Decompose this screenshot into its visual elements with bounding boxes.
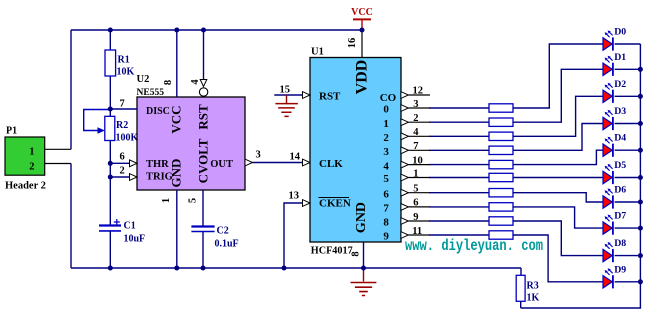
U1 pin 12 CO stub xyxy=(401,92,409,99)
wire resistor 9 to LED D9 anode xyxy=(513,235,603,282)
resistor row 1 (output 1) xyxy=(489,118,513,126)
junction bottom rail / CKEN xyxy=(282,266,287,271)
junction bottom rail / C2 xyxy=(201,266,206,271)
junction bottom rail / U2 pin1 xyxy=(174,266,179,271)
LED D2 xyxy=(603,79,626,103)
connector P1 Header 2 xyxy=(5,126,46,192)
wire U1 pin 3 to resistor row 0 xyxy=(408,107,430,109)
U1 pin 13 CKEN wire xyxy=(284,203,302,268)
wire U1 pin 7 to resistor row 3 xyxy=(408,149,430,151)
U2 pin 1 GND wire xyxy=(176,190,178,268)
svg-text:CLK: CLK xyxy=(319,158,343,170)
svg-text:8: 8 xyxy=(351,251,362,256)
svg-text:D1: D1 xyxy=(614,52,626,63)
junction right rail D5 xyxy=(638,175,643,180)
wire right cathode rail xyxy=(521,44,641,308)
svg-text:2: 2 xyxy=(120,166,125,177)
svg-text:6: 6 xyxy=(383,188,389,200)
svg-text:THR: THR xyxy=(146,159,169,170)
svg-text:14: 14 xyxy=(290,152,301,163)
junction THR node xyxy=(108,161,113,166)
svg-text:U1: U1 xyxy=(311,47,324,58)
svg-text:GND: GND xyxy=(354,202,369,233)
wire LED D9 cathode to right rail xyxy=(615,281,641,283)
resistor row 0 (output 0) xyxy=(489,104,513,112)
node U1 output 2 (pin 4) xyxy=(383,127,419,144)
wire U1 pin 6 to resistor row 7 xyxy=(408,206,430,208)
node U1 output 3 (pin 7) xyxy=(383,141,418,158)
capacitor C2 0.1uF xyxy=(191,227,214,232)
LED D0 xyxy=(603,27,626,51)
svg-text:D0: D0 xyxy=(614,27,626,38)
svg-text:2: 2 xyxy=(29,162,34,173)
resistor row 3 (output 3) xyxy=(489,146,513,154)
svg-text:D7: D7 xyxy=(614,211,626,222)
wire resistor 3 to LED D3 anode xyxy=(513,124,603,151)
junction top rail / U2 pin4 xyxy=(201,28,206,33)
svg-text:RST: RST xyxy=(319,91,341,103)
wire LED D1 cathode to right rail xyxy=(615,68,641,70)
junction right rail D7 xyxy=(638,226,643,231)
wire LED D3 cathode to right rail xyxy=(615,123,641,125)
junction top rail / U2 pin8 xyxy=(174,28,179,33)
junction right rail D4 xyxy=(638,148,643,153)
junction top rail / R1 xyxy=(108,28,113,33)
svg-text:2: 2 xyxy=(383,132,389,144)
resistor row 8 (output 8) xyxy=(489,217,513,225)
svg-text:1: 1 xyxy=(383,118,389,130)
resistor row 7 (output 7) xyxy=(489,203,513,211)
U1 CLK pin arrow xyxy=(303,159,311,166)
svg-text:1K: 1K xyxy=(527,293,540,304)
svg-text:10K: 10K xyxy=(117,67,135,78)
op-amp/timer U2 NE555 body xyxy=(137,97,245,190)
U2 pin 6 THR wire xyxy=(110,162,130,164)
wire resistor 2 to LED D2 anode xyxy=(513,96,603,136)
LED D1 xyxy=(603,52,626,76)
U2 pin 7 DISC wire xyxy=(110,108,137,110)
svg-text:9: 9 xyxy=(383,231,389,243)
svg-text:U2: U2 xyxy=(137,74,150,85)
power VCC symbol xyxy=(351,7,373,30)
svg-text:R3: R3 xyxy=(527,281,539,292)
U2 OUT pin arrow xyxy=(245,159,253,166)
wire LED D2 cathode to right rail xyxy=(615,95,641,97)
wire resistor 1 to LED D1 anode xyxy=(513,69,603,122)
svg-text:GND: GND xyxy=(168,159,183,188)
junction right rail D6 xyxy=(638,200,643,205)
LED D5 xyxy=(603,160,626,184)
svg-text:HCF4017: HCF4017 xyxy=(311,245,353,256)
wire U1 pin 11 to resistor row 9 xyxy=(408,234,430,236)
svg-text:7: 7 xyxy=(120,99,125,110)
svg-text:OUT: OUT xyxy=(210,159,233,170)
U1 inside labels xyxy=(319,91,397,210)
wire resistor 8 to LED D8 anode xyxy=(513,221,603,256)
svg-text:D3: D3 xyxy=(614,106,626,117)
resistor row 4 (output 4) xyxy=(489,160,513,168)
junction right rail D8 xyxy=(638,253,643,258)
wire R2 bottom through THR/TRIG node to C1 top xyxy=(109,141,111,226)
svg-text:DISC: DISC xyxy=(146,106,170,117)
wire resistor 6 to LED D6 anode xyxy=(513,193,603,202)
wire resistor 7 to LED D7 anode xyxy=(513,207,603,228)
LED D4 xyxy=(603,133,626,157)
wire P1 pin1 to left vertical xyxy=(45,148,71,150)
ground symbol at bottom rail xyxy=(351,268,377,296)
svg-text:5: 5 xyxy=(188,198,199,203)
junction bottom rail / C1 xyxy=(108,266,113,271)
svg-text:16: 16 xyxy=(347,38,358,49)
svg-text:CO: CO xyxy=(380,92,397,104)
wire LED D0 cathode to right rail xyxy=(615,43,641,45)
wire U1 pin 4 to resistor row 2 xyxy=(408,135,430,137)
svg-text:D2: D2 xyxy=(614,79,626,90)
svg-text:VCC: VCC xyxy=(351,7,373,18)
wire bottom ground rail xyxy=(71,267,521,269)
wire left vertical P1 pin1 up to VCC rail xyxy=(70,30,72,149)
U2 pin 4 RST wire with bubble xyxy=(203,30,205,80)
R2 wiper arrowhead xyxy=(98,127,105,134)
svg-text:12: 12 xyxy=(413,86,424,97)
resistor row 2 (output 2) xyxy=(489,132,513,140)
wire U1 pin 1 to resistor row 5 xyxy=(408,177,430,179)
U2 pin 5 CVOLT wire to C2 xyxy=(202,190,204,226)
node U1 output 4 (pin 10) xyxy=(383,155,422,172)
svg-text:1: 1 xyxy=(161,198,172,203)
svg-text:D8: D8 xyxy=(614,238,626,249)
wire U1 pin 9 to resistor row 8 xyxy=(408,220,430,222)
wire left vertical P1 pin2 down to ground rail xyxy=(70,164,72,269)
svg-text:R2: R2 xyxy=(116,120,128,131)
counter U1 HCF4017 body xyxy=(310,58,401,243)
LED D9 xyxy=(603,264,626,288)
svg-text:10uF: 10uF xyxy=(124,234,146,245)
svg-text:CKEN: CKEN xyxy=(319,198,351,210)
U1 pin 8 GND wire xyxy=(363,242,365,268)
node U1 output 0 (pin 3) xyxy=(401,99,419,112)
wire ground rail to R3 xyxy=(520,268,522,275)
node U1 output 5 (pin 1) xyxy=(383,168,418,185)
wire U1 pin 2 to resistor row 1 xyxy=(408,121,430,123)
capacitor C1 10uF polarized xyxy=(99,219,121,231)
svg-text:C1: C1 xyxy=(124,221,136,232)
U2 pin 2 TRIG wire xyxy=(110,176,130,178)
wire LED D8 cathode to right rail xyxy=(615,255,641,257)
wire resistor 4 to LED D4 anode xyxy=(513,150,603,164)
U1 pin 15 RST wire and ground xyxy=(274,94,302,96)
svg-text:C2: C2 xyxy=(217,226,229,237)
node U1 output 8 (pin 9) xyxy=(383,212,418,229)
svg-text:7: 7 xyxy=(383,203,389,215)
LED D7 xyxy=(603,211,626,235)
svg-text:D9: D9 xyxy=(614,264,626,275)
wire resistor 0 to LED D0 anode xyxy=(513,44,603,108)
node U1 output 6 (pin 5) xyxy=(383,184,418,201)
svg-text:8: 8 xyxy=(163,80,174,85)
ground symbol at U1 RST xyxy=(275,95,298,116)
resistor R3 1K xyxy=(516,275,525,301)
node U1 output 7 (pin 6) xyxy=(383,198,418,215)
resistor row 9 (output 9) xyxy=(489,231,513,239)
wire U1 pin 10 to resistor row 4 xyxy=(408,164,430,166)
junction TRIG node xyxy=(108,175,113,180)
wire U2 OUT pin3 to U1 CLK pin14 xyxy=(253,162,303,164)
svg-text:8: 8 xyxy=(383,217,389,229)
svg-text:4: 4 xyxy=(383,160,389,172)
junction right rail D3 xyxy=(638,121,643,126)
wire LED D7 cathode to right rail xyxy=(615,227,641,229)
potentiometer R2 100K xyxy=(105,116,115,140)
svg-text:3: 3 xyxy=(383,146,389,158)
junction bottom rail / U1 GND xyxy=(361,266,366,271)
svg-text:1: 1 xyxy=(29,147,34,158)
wire resistor 5 to LED D5 anode xyxy=(513,177,603,179)
svg-text:3: 3 xyxy=(256,150,261,161)
junction top rail / VCC xyxy=(360,28,365,33)
wire VCC to U1 pin16 VDD xyxy=(361,30,363,58)
resistor row 5 (output 5) xyxy=(489,173,513,181)
svg-text:CVOLT: CVOLT xyxy=(195,138,210,183)
junction DISC node xyxy=(108,107,113,112)
svg-text:D4: D4 xyxy=(614,133,626,144)
wire R3 bottom to right rail xyxy=(520,301,522,308)
junction right rail D9 xyxy=(638,279,643,284)
svg-text:D6: D6 xyxy=(614,185,626,196)
svg-text:www. diyleyuan. com: www. diyleyuan. com xyxy=(405,237,543,255)
wire P1 pin2 to left vertical xyxy=(45,163,71,165)
wire VCC rail to U2 pin8 xyxy=(176,30,178,97)
svg-text:100K: 100K xyxy=(116,133,139,144)
wire U1 pin 5 to resistor row 6 xyxy=(408,192,430,194)
svg-text:P1: P1 xyxy=(6,126,17,137)
wire LED D4 cathode to right rail xyxy=(615,149,641,151)
node U1 output 9 (pin 11) xyxy=(383,226,422,243)
svg-text:15: 15 xyxy=(280,85,291,96)
U2 inside labels xyxy=(146,106,233,182)
wire VCC rail to R1 top xyxy=(109,30,111,50)
svg-text:6: 6 xyxy=(120,152,125,163)
junction right rail D2 xyxy=(638,94,643,99)
wire LED D6 cathode to right rail xyxy=(615,201,641,203)
svg-text:13: 13 xyxy=(289,191,300,202)
svg-text:NE555: NE555 xyxy=(137,88,165,98)
wire LED D5 cathode to right rail xyxy=(615,177,641,179)
svg-text:R1: R1 xyxy=(118,55,130,66)
svg-text:VDD: VDD xyxy=(354,60,371,95)
resistor R1 10K xyxy=(105,50,116,76)
svg-text:0: 0 xyxy=(383,104,389,116)
wire top VCC rail xyxy=(71,29,362,31)
svg-text:4: 4 xyxy=(190,79,201,85)
svg-text:Header 2: Header 2 xyxy=(5,181,46,192)
LED D6 xyxy=(603,185,626,209)
junction right rail D1 xyxy=(638,67,643,72)
svg-text:D5: D5 xyxy=(614,160,626,171)
svg-text:RST: RST xyxy=(195,104,210,130)
wire R2 wiper to DISC node xyxy=(84,110,111,131)
wire R1 bottom to R2 top xyxy=(109,76,111,116)
svg-text:VCC: VCC xyxy=(168,105,183,133)
LED D8 xyxy=(603,238,626,262)
wire C1 bottom to ground rail xyxy=(109,231,111,268)
svg-text:0.1uF: 0.1uF xyxy=(215,239,239,250)
node U1 output 1 (pin 2) xyxy=(383,113,418,130)
svg-text:5: 5 xyxy=(383,173,389,185)
resistor row 6 (output 6) xyxy=(489,189,513,197)
LED D3 xyxy=(603,106,626,130)
